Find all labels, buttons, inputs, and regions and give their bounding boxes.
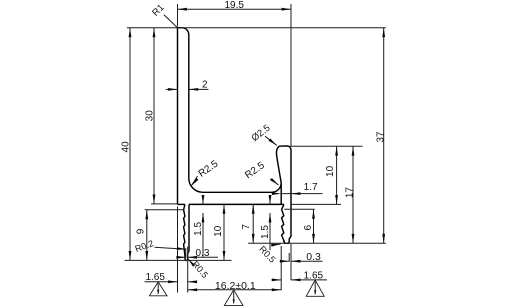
svg-text:1.65: 1.65 xyxy=(304,270,324,281)
svg-text:10: 10 xyxy=(325,165,336,177)
svg-text:7: 7 xyxy=(241,224,252,230)
svg-text:1.5: 1.5 xyxy=(193,222,204,236)
svg-text:0.3: 0.3 xyxy=(306,251,321,263)
svg-text:40: 40 xyxy=(120,141,131,153)
svg-text:17: 17 xyxy=(345,187,356,199)
svg-text:10: 10 xyxy=(213,225,224,237)
svg-text:6: 6 xyxy=(303,224,314,230)
svg-text:30: 30 xyxy=(144,110,155,122)
svg-text:16.2±0.1: 16.2±0.1 xyxy=(215,280,256,292)
svg-text:37: 37 xyxy=(375,131,386,143)
svg-text:1.7: 1.7 xyxy=(304,182,318,193)
svg-text:0.3: 0.3 xyxy=(196,248,210,259)
svg-text:19.5: 19.5 xyxy=(224,0,244,11)
svg-text:1.65: 1.65 xyxy=(145,272,165,283)
svg-text:2: 2 xyxy=(202,80,208,91)
svg-text:1.5: 1.5 xyxy=(260,225,271,239)
svg-text:9: 9 xyxy=(136,228,147,234)
